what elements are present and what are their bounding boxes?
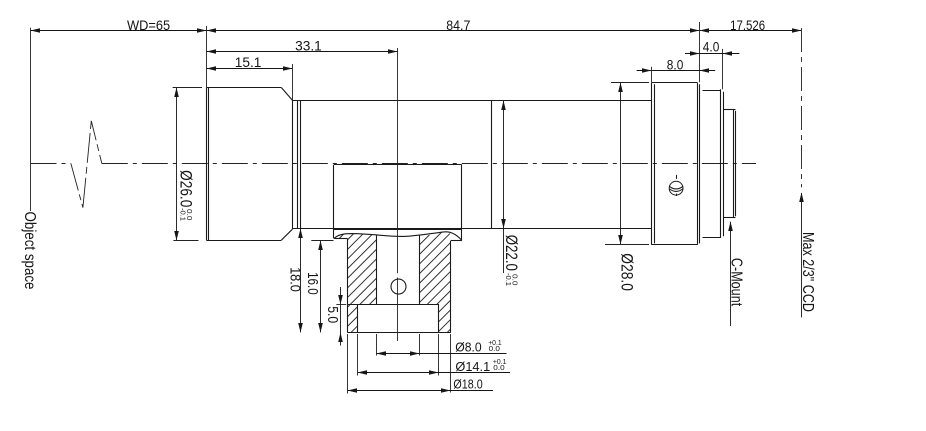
flange hatch fill left block bbox=[334, 234, 376, 333]
dimension 8.0 (rear barrel width) bbox=[637, 56, 716, 72]
svg-text:5.0: 5.0 bbox=[324, 306, 341, 323]
svg-text:15.1: 15.1 bbox=[235, 54, 262, 70]
svg-text:Ø28.0: Ø28.0 bbox=[618, 253, 637, 291]
optical axis centerline bbox=[31, 163, 757, 165]
dimension Ø14.1 +0.1/0.0 bbox=[358, 359, 511, 375]
svg-text:8.0: 8.0 bbox=[667, 56, 684, 72]
dimension 33.1 bbox=[207, 37, 398, 53]
svg-text:4.0: 4.0 bbox=[703, 39, 720, 55]
svg-text:Ø26.0: Ø26.0 bbox=[176, 170, 195, 207]
svg-text:C-Mount: C-Mount bbox=[727, 258, 744, 307]
dimension Ø18.0 bbox=[347, 377, 493, 393]
extension lines below flange bbox=[348, 334, 451, 394]
svg-text:16.0: 16.0 bbox=[304, 272, 321, 295]
image plane line (dash-dot) bbox=[801, 28, 803, 187]
rear barrel (Ø28) bbox=[652, 83, 700, 245]
extension line front vertex bbox=[206, 26, 208, 88]
object plane line bbox=[30, 28, 32, 211]
dimension Ø28.0 bbox=[605, 83, 649, 291]
svg-text:Max 2/3" CCD: Max 2/3" CCD bbox=[799, 232, 816, 312]
mounting hole circle bbox=[391, 279, 406, 294]
front barrel (Ø26) bbox=[206, 88, 300, 241]
rear thread cylinder bbox=[723, 110, 735, 218]
flange outline (wavy top, sides, bore, counterbore) bbox=[334, 232, 462, 333]
svg-text:WD=65: WD=65 bbox=[127, 17, 170, 33]
dimension 16.0 bbox=[304, 241, 333, 333]
C-mount ring (Ø25.4 flange) bbox=[703, 89, 724, 237]
svg-text:-0.1: -0.1 bbox=[178, 208, 185, 221]
dimension 17.526 bbox=[699, 17, 801, 33]
set screw symbol bbox=[669, 175, 683, 196]
svg-text:0.0: 0.0 bbox=[489, 346, 500, 353]
extension line 15.1 (upper part) bbox=[292, 64, 294, 100]
C-Mount leader and label bbox=[727, 222, 744, 327]
mounting block (rect below tube) bbox=[334, 165, 462, 241]
main tube (Ø22) bbox=[292, 100, 652, 228]
svg-text:Ø8.0: Ø8.0 bbox=[455, 339, 481, 354]
svg-text:Ø18.0: Ø18.0 bbox=[453, 377, 482, 392]
dimension 84.7 bbox=[207, 17, 700, 33]
Max 2/3" CCD leader and label bbox=[799, 193, 816, 318]
extension line 4.0 right bbox=[722, 49, 724, 89]
svg-text:33.1: 33.1 bbox=[295, 37, 322, 53]
svg-text:17.526: 17.526 bbox=[730, 17, 765, 33]
dimension 5.0 bbox=[324, 287, 346, 346]
dimension Ø8.0 +0.1/0.0 bbox=[376, 339, 506, 356]
flange hatch fill right block bbox=[420, 232, 451, 333]
extension line flange face x=699.4 bbox=[699, 22, 701, 82]
extension line 8.0 left bbox=[651, 67, 653, 83]
dimension 4.0 (ring width) bbox=[685, 39, 739, 56]
svg-text:Ø22.0: Ø22.0 bbox=[502, 235, 521, 271]
svg-text:84.7: 84.7 bbox=[446, 17, 470, 33]
svg-text:0.0: 0.0 bbox=[493, 365, 504, 372]
dimension Ø22.0 bbox=[501, 100, 521, 286]
svg-text:Ø14.1: Ø14.1 bbox=[455, 359, 490, 374]
dimension Ø26.0 bbox=[173, 88, 202, 241]
svg-text:18.0: 18.0 bbox=[286, 267, 303, 292]
dimension WD=65 bbox=[31, 17, 207, 33]
svg-text:-0.1: -0.1 bbox=[504, 273, 511, 286]
dimension 18.0 bbox=[286, 229, 303, 333]
hole centerline (33.1 extension) bbox=[397, 48, 399, 341]
dimension 15.1 bbox=[207, 54, 293, 71]
break symbol (lightning) on axis bbox=[71, 121, 102, 208]
svg-text:Object space: Object space bbox=[21, 212, 38, 290]
